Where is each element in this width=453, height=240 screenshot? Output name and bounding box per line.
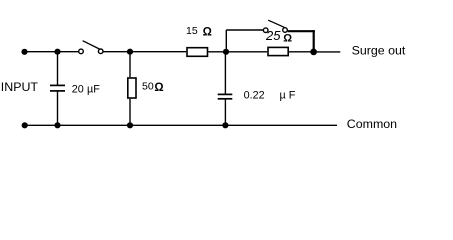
wire bypass branch thick segment: S2 to corner <box>288 30 315 32</box>
wire riser: J3 up to bypass branch <box>225 30 227 52</box>
node junction J7 (0.22uF bottom) <box>222 122 228 128</box>
wire bypass branch top: corner to switch S2 <box>226 29 263 31</box>
svg-text:20: 20 <box>72 83 84 95</box>
label R1 unit ohm <box>203 27 212 39</box>
resistor R2 50 ohm body <box>128 78 136 98</box>
capacitor C2 0.22uF top lead <box>224 52 226 95</box>
label Common <box>347 117 397 131</box>
label R2 value 50 <box>142 81 154 93</box>
label R3 unit ohm <box>283 33 292 45</box>
node junction J4 (surge out) <box>310 49 317 56</box>
svg-text:50: 50 <box>142 81 154 93</box>
svg-text:Ω: Ω <box>203 27 212 39</box>
capacitor C1 20uF plates <box>50 85 65 91</box>
node input top terminal <box>21 49 27 55</box>
resistor R2 50 ohm top lead <box>129 52 131 77</box>
wire bottom rail: input terminal to J5 <box>25 124 58 126</box>
wire top rail: R3 to junction J4 <box>289 51 314 53</box>
label C2 unit uF <box>280 90 296 102</box>
label C1 value 20 uF <box>72 83 100 95</box>
label R2 unit ohm <box>154 82 163 94</box>
wire output: J4 to surge out stub <box>314 51 341 53</box>
label Surge out <box>352 44 406 58</box>
wire top rail: R1 to junction J3 <box>208 51 226 53</box>
label R1 value 15 <box>186 25 198 37</box>
label INPUT <box>1 80 39 94</box>
wire thick right drop: corner down to junction J4 <box>313 30 315 52</box>
node junction J3 (0.22uF top / bypass branch left) <box>223 49 229 55</box>
svg-text:Ω: Ω <box>283 33 292 45</box>
resistor R2 50 ohm bottom lead <box>129 99 131 126</box>
switch S2 <box>263 20 287 32</box>
svg-text:Ω: Ω <box>154 82 163 94</box>
capacitor C2 0.22uF bottom lead <box>224 99 226 126</box>
node junction J2 (50 ohm top) <box>127 49 133 55</box>
node junction J6 (50 ohm bottom) <box>127 122 133 128</box>
wire top rail: J3 to resistor R3 <box>226 51 267 53</box>
wire top rail: input terminal to first junction <box>25 51 58 53</box>
resistor R3 2.5 ohm body <box>268 47 288 55</box>
svg-text:µF: µF <box>87 83 100 95</box>
svg-text:0.22: 0.22 <box>244 90 265 102</box>
node junction J5 (20uF bottom) <box>54 122 60 128</box>
svg-text:15: 15 <box>186 25 198 37</box>
wire top rail: J1 to switch S1 <box>58 51 79 53</box>
resistor R1 15 ohm body <box>187 48 208 57</box>
switch S1 <box>79 41 103 54</box>
wire top rail: S1 to junction J2 <box>103 51 130 53</box>
capacitor C2 0.22uF plates <box>218 94 233 98</box>
wire bottom rail: J5 to J6 <box>58 124 131 126</box>
svg-text:Surge out: Surge out <box>352 44 406 58</box>
svg-text:Common: Common <box>347 117 397 131</box>
svg-text:µ F: µ F <box>280 90 296 102</box>
svg-text:INPUT: INPUT <box>1 80 39 94</box>
node junction J1 (20uF top) <box>54 49 60 55</box>
label R3 value 25 <box>265 28 281 43</box>
capacitor C1 20uF bottom lead <box>57 91 59 125</box>
svg-text:25: 25 <box>265 28 281 43</box>
wire bottom rail: J7 to common stub <box>225 124 337 126</box>
node input bottom terminal <box>22 122 28 128</box>
label C2 value 0.22 <box>244 90 265 102</box>
wire top rail: J2 to resistor R1 <box>130 51 186 53</box>
capacitor C1 20uF top lead <box>57 52 59 86</box>
wire bottom rail: J6 to J7 <box>130 124 225 126</box>
